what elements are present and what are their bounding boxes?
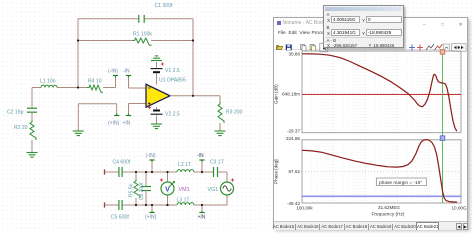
svg-text:(+IN): (+IN) <box>145 215 157 221</box>
svg-text:R2 20: R2 20 <box>14 125 28 131</box>
svg-text:+IN: +IN <box>123 121 131 127</box>
svg-text:C4 600f: C4 600f <box>113 160 131 166</box>
svg-text:Gain (dB): Gain (dB) <box>274 84 279 104</box>
svg-text:VG1: VG1 <box>208 187 219 193</box>
svg-text:C2 16p: C2 16p <box>7 110 24 116</box>
svg-text:10.00G: 10.00G <box>451 206 466 211</box>
svg-text:(-IN): (-IN) <box>108 69 118 75</box>
svg-text:31.62MEG: 31.62MEG <box>378 205 400 210</box>
svg-text:phase margin = -19°: phase margin = -19° <box>379 180 422 186</box>
svg-text:C5 600f: C5 600f <box>111 215 129 221</box>
svg-text:R3 200: R3 200 <box>226 110 243 116</box>
svg-text:(-IN): (-IN) <box>146 153 156 159</box>
svg-text:L3 1T: L3 1T <box>177 198 190 204</box>
svg-text:R4 10: R4 10 <box>88 79 102 85</box>
svg-text:100.00k: 100.00k <box>296 206 313 211</box>
svg-text:C1 300f: C1 300f <box>155 3 173 9</box>
svg-text:Phase [deg]: Phase [deg] <box>274 159 279 184</box>
svg-text:(+IN): (+IN) <box>108 121 120 127</box>
svg-text:R5 5k: R5 5k <box>129 183 135 197</box>
svg-text:Frequency (Hz): Frequency (Hz) <box>371 211 404 217</box>
svg-text:648.18m: 648.18m <box>282 91 300 96</box>
svg-text:V2 2.5: V2 2.5 <box>165 112 180 118</box>
svg-text:67.62: 67.62 <box>289 169 301 174</box>
svg-text:-IN: -IN <box>123 69 130 75</box>
svg-text:V1 2.5: V1 2.5 <box>165 68 180 74</box>
svg-text:VM1: VM1 <box>179 187 190 193</box>
svg-text:U1 OPA855: U1 OPA855 <box>159 78 186 84</box>
svg-text:224.65: 224.65 <box>286 136 300 141</box>
svg-text:+IN: +IN <box>198 215 206 221</box>
svg-text:30.86: 30.86 <box>289 52 301 57</box>
svg-text:-29.37: -29.37 <box>287 129 300 134</box>
svg-text:-IN: -IN <box>197 153 204 159</box>
svg-text:V: V <box>165 186 170 193</box>
svg-text:C6 200f: C6 200f <box>139 182 145 200</box>
svg-text:C3 1T: C3 1T <box>210 160 224 166</box>
svg-text:R1 100k: R1 100k <box>133 32 152 38</box>
svg-text:L2 1T: L2 1T <box>178 162 191 168</box>
svg-text:L1 10n: L1 10n <box>40 79 56 85</box>
